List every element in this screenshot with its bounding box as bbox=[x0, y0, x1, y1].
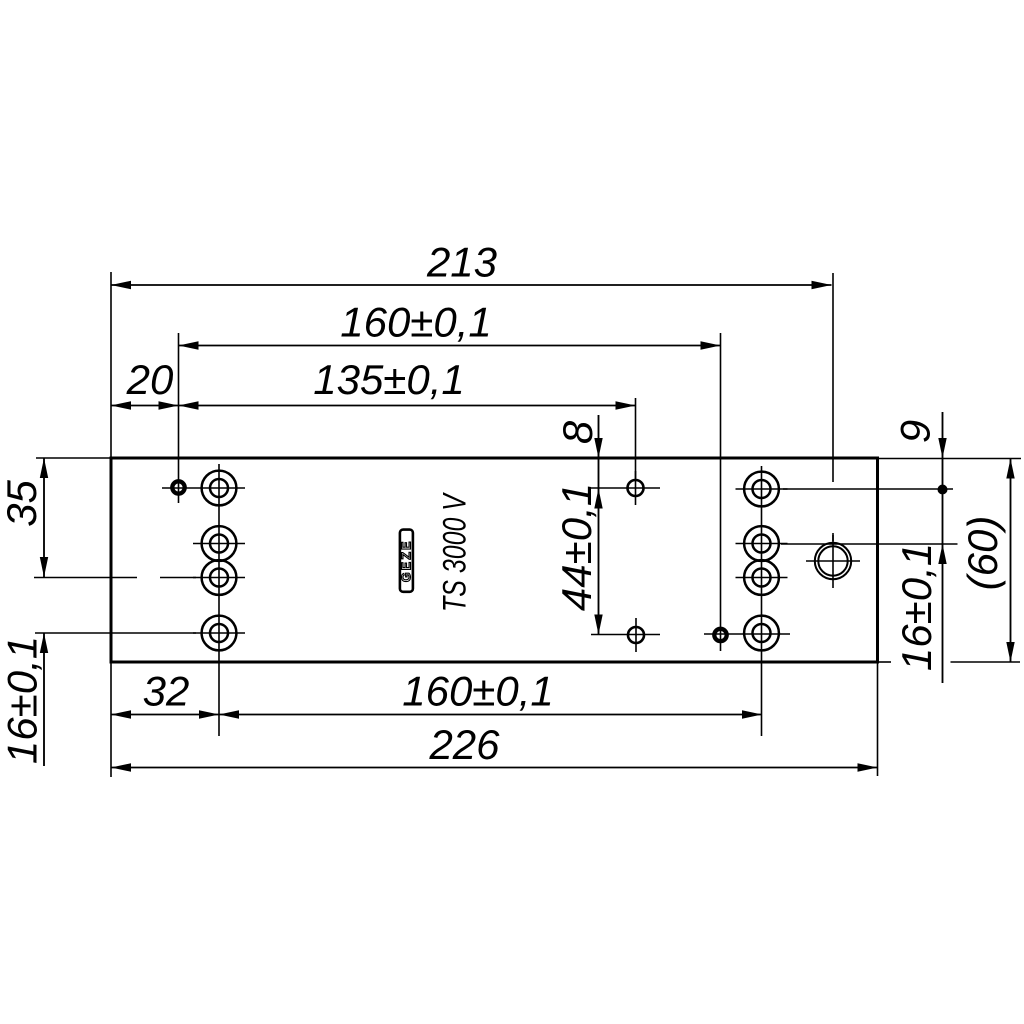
svg-text:16±0,1: 16±0,1 bbox=[0, 636, 46, 764]
svg-text:TS 3000 V: TS 3000 V bbox=[438, 492, 474, 612]
svg-text:GEZE: GEZE bbox=[400, 539, 414, 582]
svg-text:16±0,1: 16±0,1 bbox=[893, 543, 940, 671]
svg-text:160±0,1: 160±0,1 bbox=[340, 299, 492, 346]
svg-text:44±0,1: 44±0,1 bbox=[553, 483, 600, 611]
svg-text:226: 226 bbox=[428, 721, 500, 768]
svg-text:160±0,1: 160±0,1 bbox=[402, 668, 554, 715]
svg-text:32: 32 bbox=[143, 668, 190, 715]
svg-text:35: 35 bbox=[0, 480, 45, 527]
svg-text:135±0,1: 135±0,1 bbox=[313, 356, 465, 403]
svg-text:213: 213 bbox=[426, 239, 497, 286]
svg-text:8: 8 bbox=[554, 420, 601, 444]
svg-text:20: 20 bbox=[126, 356, 174, 403]
svg-text:(60): (60) bbox=[959, 516, 1006, 591]
svg-text:9: 9 bbox=[892, 420, 939, 443]
